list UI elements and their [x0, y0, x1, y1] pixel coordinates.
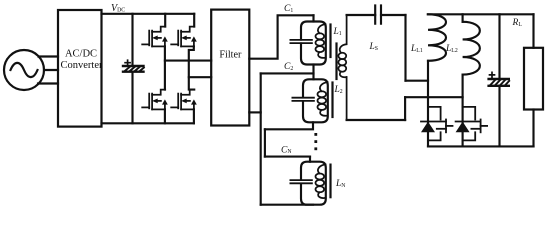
wire Ls out A: [406, 80, 429, 82]
wire filter out1 to branch1 top: [249, 15, 313, 58]
svg-text:Converter: Converter: [61, 60, 103, 71]
AC source: [4, 50, 44, 90]
svg-text:AC/DC: AC/DC: [65, 49, 97, 60]
wire Q4 source to bottom rail: [193, 109, 195, 123]
wire Ls loop top right: [381, 14, 406, 16]
wire return bus: [260, 73, 262, 204]
wire branchN bottom to bus: [261, 204, 313, 206]
svg-text:C2: C2: [284, 62, 293, 72]
diode D1: [421, 122, 435, 133]
wire receiver top rail: [428, 13, 534, 15]
wire source to converter (mid): [44, 69, 58, 71]
inductor LL2: [463, 14, 480, 74]
inductor L2: [318, 82, 328, 116]
capacitor Cdc (DC link, polarized): [123, 14, 144, 124]
wire receiver bottom rail: [428, 145, 534, 147]
capacitor CN: [290, 180, 312, 183]
transistor Q4: [171, 90, 197, 110]
transistor Q2: [171, 27, 197, 47]
diode D2: [456, 122, 470, 133]
wire branch2 top line: [261, 72, 314, 74]
inductor Ls coil: [338, 15, 346, 120]
wire source to converter (bottom): [38, 82, 58, 84]
wire DC- bottom rail: [102, 122, 194, 124]
wire Ls loop bottom: [347, 119, 406, 121]
inductor LN: [316, 165, 326, 199]
wire Ls loop top left: [347, 14, 376, 16]
wire LL2 / rectifier leg 2: [462, 75, 464, 147]
svg-text:L1: L1: [333, 27, 342, 37]
wire branch1 entry drop: [312, 15, 314, 21]
wire branch2 bottom exit: [265, 122, 313, 129]
transistor Q1: [142, 27, 168, 47]
svg-text:VDC: VDC: [111, 3, 125, 14]
wire Ls loop right side: [404, 15, 406, 81]
wire series link vertical: [264, 129, 266, 156]
capacitor Cs: [375, 6, 381, 24]
wire branchN top line: [265, 156, 310, 158]
svg-text:C1: C1: [284, 4, 293, 14]
branch 2 loop: [303, 79, 328, 122]
transistor Q6 (sync rectifier): [456, 107, 488, 140]
capacitor C2: [292, 98, 314, 101]
transformer core bar L1: [329, 25, 331, 58]
transformer core bar LN: [329, 165, 331, 198]
wire Q3 source to bottom rail: [164, 109, 166, 123]
capacitor Co (output, polarized): [489, 14, 510, 146]
transformer core bar L2: [331, 83, 333, 118]
wire branch1 bottom to branch2 top: [312, 65, 314, 80]
wire RL top: [532, 14, 534, 48]
wire Q2 drain to top rail: [193, 14, 195, 27]
svg-text:LS: LS: [369, 42, 379, 52]
inductor LL1: [428, 14, 446, 61]
svg-text:LN: LN: [335, 179, 346, 189]
wire bridge output 1 to filter: [165, 60, 211, 62]
branch 1 loop: [301, 22, 326, 65]
wire branchN entry drop: [309, 157, 311, 162]
svg-text:LL2: LL2: [445, 44, 458, 54]
inductor L1: [316, 24, 326, 58]
svg-text:Filter: Filter: [219, 49, 242, 60]
filter block: [211, 10, 249, 126]
wire source to converter (top): [39, 55, 59, 57]
transformer core bar Ls: [335, 44, 337, 80]
svg-text:CN: CN: [281, 145, 292, 155]
svg-text:RL: RL: [512, 18, 523, 28]
wire filter out2: [249, 111, 260, 113]
wire leg2 midpoint (with jog): [189, 46, 194, 89]
wire DC+ top rail: [102, 13, 195, 15]
wire Ls out B: [405, 96, 463, 98]
wire Ls out B riser: [404, 97, 406, 120]
wire LL1 / rectifier leg 1: [427, 61, 429, 147]
wire Q1 drain to top rail: [164, 14, 166, 27]
svg-text:L2: L2: [334, 85, 343, 95]
capacitor C1: [290, 40, 312, 43]
wire leg1 midpoint: [164, 46, 166, 89]
wire bridge output 2 to filter: [189, 76, 211, 78]
AC/DC converter block: [58, 10, 102, 127]
resistor RL: [524, 48, 543, 110]
wire RL bottom: [532, 110, 534, 147]
transistor Q5 (sync rectifier): [421, 107, 453, 140]
svg-text:LL1: LL1: [410, 44, 423, 54]
branch N loop: [301, 162, 326, 205]
node continuation dots: [314, 133, 317, 150]
transistor Q3: [142, 90, 168, 110]
